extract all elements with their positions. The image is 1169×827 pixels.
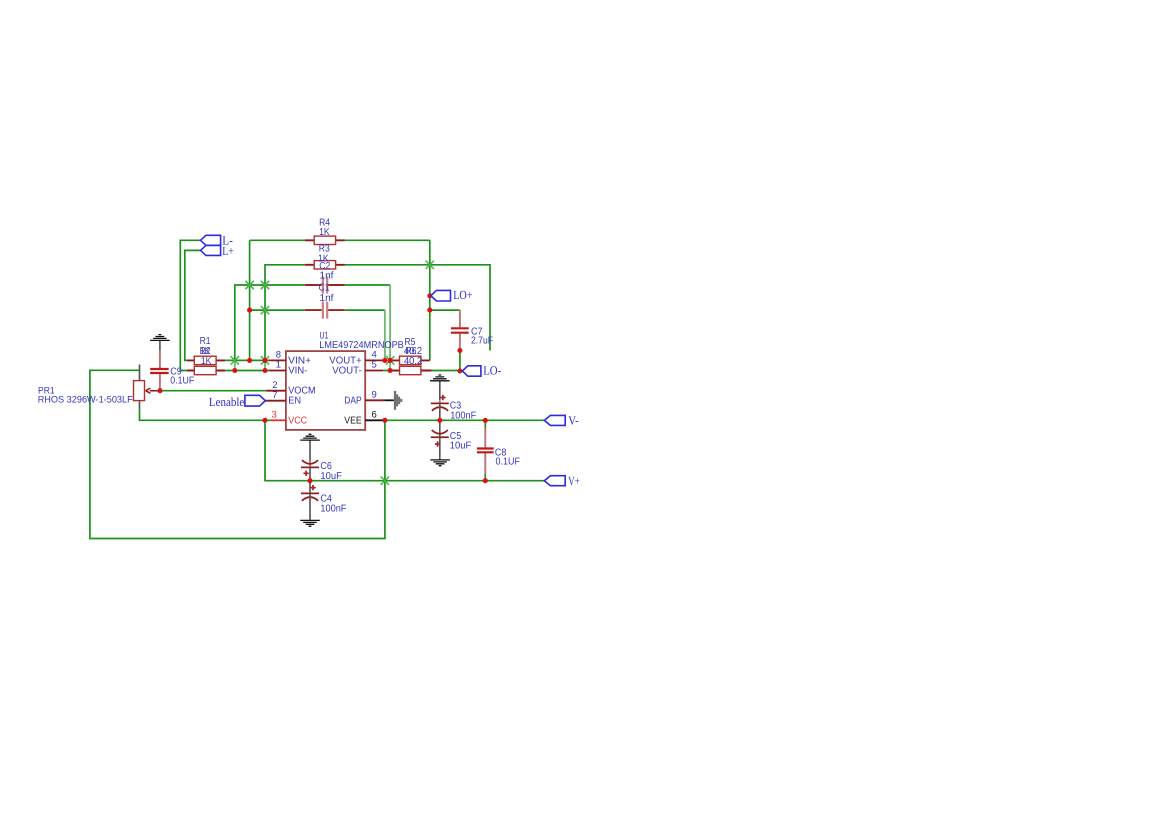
node VOUT+ x=390.1	[388, 358, 393, 363]
resistor R6	[390, 366, 432, 374]
wire C7 bottom to LO- junction	[459, 351, 461, 372]
svg-text:EN: EN	[288, 396, 301, 407]
capacitor C8 (0.1UF)	[477, 428, 494, 474]
ground below C5 (earth)	[430, 460, 450, 466]
flag L+	[201, 245, 221, 255]
flag LO-	[462, 366, 481, 376]
node C3/C5	[437, 418, 442, 423]
wire vertical x=429.8 from R4 to R5 right	[429, 240, 431, 360]
svg-text:6: 6	[372, 409, 377, 420]
wire C1 row y=310 left green from junction	[250, 309, 305, 311]
label C5 value 10uF	[450, 440, 472, 451]
label C4 value 100nF	[320, 504, 346, 515]
node C7 top branch	[427, 308, 432, 313]
label C3 ref	[450, 401, 462, 412]
capacitor C1 (1nf)	[305, 302, 345, 319]
svg-text:VIN-: VIN-	[288, 366, 307, 377]
label C3 value 100nF	[450, 410, 476, 421]
label R3 value 1K	[318, 253, 329, 264]
pin number 3 (red)	[272, 409, 277, 420]
svg-text:VEE: VEE	[344, 415, 362, 426]
svg-text:V+: V+	[568, 474, 579, 488]
label R4 value 1K	[319, 227, 330, 238]
capacitor C9 (0.1UF)	[150, 351, 168, 391]
label C9 ref	[170, 366, 182, 377]
pin 8 lead VIN+	[269, 359, 286, 361]
label C6 ref	[320, 461, 332, 472]
label C8 value 0.1UF	[496, 456, 521, 467]
node VIN- x=265	[262, 368, 267, 373]
resistor R1	[187, 356, 225, 364]
svg-text:Lenable: Lenable	[209, 395, 245, 409]
node C1 left	[247, 308, 252, 313]
svg-text:1K: 1K	[201, 356, 212, 367]
capacitor C6 (10uF polarized)	[301, 460, 319, 481]
svg-text:RHOS 3296W-1-503LF: RHOS 3296W-1-503LF	[38, 394, 133, 405]
node VIN+ x=249.6	[247, 358, 252, 363]
capacitor C2 (1nf)	[305, 277, 345, 294]
pin name VIN-	[288, 366, 307, 377]
flag Lenable	[245, 395, 265, 406]
pin 5 lead VOUT-	[365, 370, 383, 372]
label C2 value 1nf	[320, 270, 334, 281]
svg-text:0.1UF: 0.1UF	[170, 375, 194, 386]
svg-text:V-: V-	[568, 414, 579, 428]
wire L- net: flag to R2 left	[180, 240, 200, 370]
label R6 value 40.2	[404, 356, 423, 367]
ground below C4 (earth)	[300, 520, 320, 526]
label U1 value LME49724MRNOPB	[319, 340, 404, 351]
wire C8 top stub green	[484, 420, 486, 429]
pin name EN	[288, 396, 301, 407]
node C8 bottom	[483, 478, 488, 483]
svg-text:2.7uF: 2.7uF	[471, 336, 493, 347]
pin name VEE (black)	[344, 415, 362, 426]
flag text L+	[222, 244, 234, 258]
label C7 ref	[471, 326, 483, 337]
svg-text:9: 9	[372, 390, 377, 401]
node LO+	[427, 293, 432, 298]
flag L-	[201, 235, 221, 245]
wire C8 bottom stub green	[484, 473, 486, 481]
wire pot top net to left loop	[90, 370, 385, 538]
pin name DAP	[344, 396, 362, 407]
flag LO+	[431, 290, 451, 301]
wire VIN- row green R2 to pin 1	[225, 370, 269, 372]
label C6 value 10uF	[320, 471, 342, 482]
wire L+ net: flag to R1 left	[185, 250, 201, 360]
node C9/pot/VOCM	[157, 388, 162, 393]
flag V+	[544, 476, 565, 486]
wire R4 row y=240 right green	[345, 239, 430, 241]
label C1 ref	[319, 283, 330, 294]
svg-text:LME49724MRNOPB: LME49724MRNOPB	[319, 340, 404, 351]
node C8 top	[483, 418, 488, 423]
resistor R5	[390, 356, 430, 364]
wire R3 row y=265 right green to x=490	[345, 265, 490, 351]
ground above C3 (inverted earth)	[430, 375, 450, 400]
node VIN+ x=265	[262, 358, 267, 363]
label R5 value 40.2 overlapped	[404, 346, 423, 357]
label R2 ref overlapped	[200, 346, 211, 357]
wire VOCM row y=390 green	[160, 390, 266, 392]
pin number 1	[276, 360, 281, 371]
pin 3 lead VCC (red)	[271, 419, 286, 421]
label C1 value 1nf	[320, 293, 334, 304]
resistor R3	[305, 261, 345, 269]
svg-text:5: 5	[372, 360, 377, 371]
node X C1 row x=265	[261, 306, 269, 314]
wire C2 row y=285 left corner down to VIN-	[235, 285, 305, 371]
node X C2 row x=265	[261, 281, 269, 289]
pin name VIN+	[288, 356, 311, 367]
node X VIN+ row x=234.8	[231, 356, 239, 364]
pin 9 lead DAP	[365, 399, 384, 401]
svg-text:DAP: DAP	[344, 396, 362, 407]
node C7 bottom	[457, 348, 462, 353]
pin name VCC (red)	[288, 415, 307, 426]
flag text LO-	[483, 364, 501, 378]
label R6 ref overlapped	[406, 346, 417, 357]
pin 7 lead EN	[265, 400, 286, 402]
label R2 value 1K	[201, 356, 212, 367]
node VOUT+ x=384.9	[382, 358, 387, 363]
svg-text:1: 1	[276, 360, 281, 371]
pin number 8	[276, 350, 281, 361]
pin number 7	[272, 390, 277, 401]
label C4 ref	[320, 493, 332, 504]
wire VOUT- pin5 green bit	[383, 370, 390, 372]
label R1 value 1K overlapped	[200, 346, 211, 357]
node VIN- x=234.8	[232, 368, 237, 373]
node VCC x=265	[262, 418, 267, 423]
pin name VOCM	[288, 386, 316, 397]
resistor R4	[305, 236, 345, 244]
svg-text:10uF: 10uF	[320, 471, 342, 482]
svg-text:100nF: 100nF	[320, 504, 346, 515]
svg-text:10uF: 10uF	[450, 440, 472, 451]
DAP chassis ground symbol (gray)	[385, 391, 403, 410]
flag V-	[544, 415, 565, 425]
svg-text:1K: 1K	[319, 227, 330, 238]
ground above C9 (inverted earth)	[150, 335, 170, 351]
label C2 ref	[319, 261, 330, 272]
svg-text:VOUT-: VOUT-	[332, 366, 362, 377]
flag text LO+	[453, 288, 472, 302]
label C9 value 0.1UF	[170, 375, 194, 386]
svg-text:VCC: VCC	[288, 415, 307, 426]
node VEE x=384.9	[382, 418, 387, 423]
wire VIN+ row green R1 to pin 8	[225, 359, 269, 361]
pin 2 lead VOCM	[266, 390, 286, 392]
ground below U1 above C6 (inverted earth)	[300, 434, 320, 460]
label C5 ref	[450, 431, 462, 442]
op-amp U1 LME49724MRNOPB body	[286, 351, 365, 430]
svg-text:1nf: 1nf	[320, 293, 334, 304]
svg-text:100nF: 100nF	[450, 410, 476, 421]
pin number 9	[372, 390, 377, 401]
wire C7 top branch y=310	[430, 309, 460, 311]
svg-text:LO-: LO-	[483, 364, 501, 378]
svg-text:40.2: 40.2	[404, 356, 423, 367]
svg-text:1nf: 1nf	[320, 270, 334, 281]
pin 6 lead VEE (black)	[365, 419, 383, 421]
label R3 ref	[319, 243, 330, 254]
svg-text:0.1UF: 0.1UF	[496, 456, 521, 467]
label PR1 value RHOS 3296W-1-503LF	[38, 394, 133, 405]
wire VEE row to V- flag	[383, 419, 544, 421]
wire VCC branch down to V+ rail	[265, 420, 544, 480]
pin name VOUT-	[332, 366, 362, 377]
wire vertical x=249.6 from R4 to VIN+	[249, 240, 251, 360]
wire R3 row y=265 left green with corner down to VIN-	[265, 265, 305, 371]
flag text V-	[568, 414, 579, 428]
label U1 ref	[320, 330, 329, 341]
node X VOUT+ row x=390.1	[386, 356, 394, 364]
node X V+ rail x=384.9	[381, 477, 389, 485]
wire C2 row y=285 right corner down to VOUT-	[345, 285, 390, 371]
svg-text:L+: L+	[222, 244, 234, 258]
label R4 ref	[319, 217, 330, 228]
pin number 2	[272, 380, 277, 391]
pin name VOUT+	[329, 356, 362, 367]
svg-text:3: 3	[272, 409, 277, 420]
wire VOUT- row green R6 to LO- flag	[432, 370, 463, 372]
label R5 ref	[404, 337, 415, 348]
svg-text:7: 7	[272, 390, 277, 401]
flag text L-	[222, 234, 233, 248]
pin number 4	[372, 350, 377, 361]
resistor R2	[187, 366, 225, 374]
label C7 value 2.7uF	[471, 336, 493, 347]
wire C1 row y=310 right corner down to VOUT+	[345, 310, 385, 360]
label C8 ref	[495, 448, 507, 459]
capacitor C7 (2.7uF)	[451, 310, 469, 350]
svg-text:LO+: LO+	[453, 288, 472, 302]
label R1 ref	[200, 336, 211, 347]
node VOUT- x=390.1	[388, 368, 393, 373]
potentiometer PR1	[134, 365, 161, 409]
pin 1 lead VIN-	[269, 370, 286, 372]
wire pot bottom to VCC pin 3	[140, 409, 272, 421]
node X R3 row x=429.8	[426, 261, 434, 269]
capacitor C3 (100nF polarized)	[431, 395, 449, 421]
pin number 6 (black)	[372, 409, 377, 420]
wire R4 row y=240 left green	[250, 239, 305, 241]
node X C2 row x=249.6	[245, 281, 253, 289]
node X VIN+ row x=265	[261, 356, 269, 364]
flag text V+	[568, 474, 579, 488]
label PR1 ref	[38, 385, 55, 396]
capacitor C4 (100nF polarized)	[301, 481, 319, 520]
pin 4 lead VOUT+	[365, 359, 385, 361]
node LO-	[457, 368, 462, 373]
capacitor C5 (10uF polarized)	[431, 420, 449, 459]
pin number 5	[372, 360, 377, 371]
flag text Lenable	[209, 395, 245, 409]
node C6/C4	[307, 478, 312, 483]
